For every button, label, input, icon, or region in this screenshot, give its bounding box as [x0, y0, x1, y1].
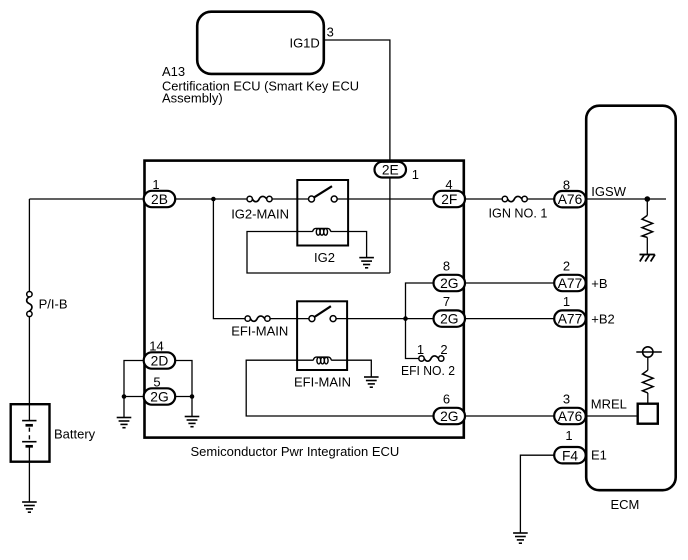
svg-text:A76: A76 — [558, 409, 583, 424]
svg-text:8: 8 — [563, 177, 570, 192]
svg-text:1: 1 — [152, 177, 159, 192]
wire 2G8 to A77 — [465, 282, 554, 284]
wire 2D left to ground — [124, 361, 144, 418]
svg-text:1: 1 — [565, 428, 572, 443]
svg-text:5: 5 — [153, 375, 160, 390]
wire relay EFI-MAIN switch to 2G7 row — [336, 318, 433, 320]
MREL driver terminal circle — [636, 347, 662, 357]
ground IG2 coil — [359, 258, 374, 268]
ground 2D/2G5 left — [117, 418, 132, 428]
resistor IGSW pull-down — [642, 199, 653, 255]
svg-text:2G: 2G — [150, 390, 168, 405]
connector F4 pin 1 — [554, 428, 586, 464]
relay IG2 switch contacts — [309, 186, 338, 202]
relay EFI-MAIN coil — [313, 357, 331, 364]
svg-text:1: 1 — [417, 342, 424, 357]
svg-text:EFI NO. 2: EFI NO. 2 — [401, 363, 455, 378]
svg-text:EFI-MAIN: EFI-MAIN — [231, 324, 288, 339]
fuse EFI-MAIN — [245, 316, 270, 321]
svg-text:14: 14 — [149, 339, 163, 354]
svg-text:2G: 2G — [440, 409, 458, 424]
connector A76 pin 8 — [554, 177, 586, 207]
connector 2G pin 8 — [434, 259, 466, 292]
junction node right ground — [190, 394, 195, 399]
relay IG2 coil — [313, 228, 331, 235]
wire EFI-MAIN coil to ground — [331, 360, 371, 377]
wire EFI-MAIN fuse to relay — [270, 318, 309, 320]
connector A77 pin 2 — [554, 259, 586, 292]
wire J2 down to EFI NO. 2 fuse — [406, 319, 419, 359]
wire IGSW internal — [586, 198, 666, 200]
svg-text:2: 2 — [440, 342, 447, 357]
svg-text:+B: +B — [591, 276, 607, 291]
svg-text:IG2: IG2 — [314, 250, 335, 265]
svg-text:2G: 2G — [440, 276, 458, 291]
svg-text:2: 2 — [563, 259, 570, 274]
svg-text:P/I-B: P/I-B — [39, 297, 68, 312]
wire 2B to IG2-MAIN fuse — [175, 198, 247, 200]
Semiconductor Pwr Integration ECU box — [145, 161, 464, 438]
fuse IG2-MAIN — [247, 196, 272, 201]
svg-text:Assembly): Assembly) — [162, 91, 223, 106]
connector 2F pin 4 — [434, 177, 466, 207]
relay IG2 box — [297, 180, 348, 246]
connector 2D pin 14 — [144, 339, 176, 369]
connector 2E pin 1 — [375, 162, 420, 182]
wire IG2-MAIN fuse to relay — [272, 198, 308, 200]
relay EFI-MAIN box — [297, 301, 347, 370]
wire 2G7 to A77 — [465, 318, 554, 320]
wire 2G8 to J2 — [406, 283, 434, 319]
chassis ground IGSW — [640, 255, 656, 262]
wire IG2 coil loop from 2E — [247, 232, 390, 274]
connector 2G pin 5 — [144, 375, 176, 405]
svg-text:2G: 2G — [440, 312, 458, 327]
svg-text:IGN NO. 1: IGN NO. 1 — [489, 205, 548, 220]
svg-text:2F: 2F — [441, 192, 457, 207]
svg-text:A77: A77 — [558, 276, 583, 291]
junction node IGSW — [645, 196, 651, 202]
relay EFI-MAIN switch contacts — [309, 306, 336, 321]
wire IGN NO. 1 to A76 — [527, 198, 554, 200]
svg-text:ECM: ECM — [611, 497, 640, 512]
connector A76 pin 3 — [554, 392, 586, 425]
battery cell plates — [22, 421, 36, 447]
connector 2B pin 1 — [144, 177, 176, 207]
svg-text:7: 7 — [443, 294, 450, 309]
ECM box — [586, 106, 676, 491]
ECU A13 box — [197, 12, 324, 74]
ground E1 — [513, 533, 528, 543]
wire battery to ground — [28, 446, 30, 502]
junction node J1 — [211, 197, 216, 202]
svg-text:EFI-MAIN: EFI-MAIN — [294, 374, 351, 389]
svg-text:MREL: MREL — [591, 397, 627, 412]
svg-text:Battery: Battery — [54, 427, 96, 442]
svg-text:F4: F4 — [562, 448, 578, 463]
svg-text:Semiconductor Pwr Integration: Semiconductor Pwr Integration ECU — [191, 444, 400, 459]
svg-text:A76: A76 — [558, 192, 583, 207]
fuse IGN NO. 1 — [502, 196, 527, 201]
resistor MREL — [643, 357, 654, 404]
wire 2F to IGN NO. 1 fuse — [465, 198, 502, 200]
connector 2G pin 7 — [434, 294, 466, 327]
wire J1 down to EFI-MAIN fuse — [213, 199, 245, 319]
wire F4 to ground — [520, 455, 554, 533]
MREL driver square — [638, 404, 658, 424]
wire EFI-MAIN coil to 2G6 — [246, 360, 433, 416]
wire IG2 coil to ground — [331, 232, 367, 258]
svg-text:3: 3 — [327, 24, 334, 39]
wire 2D right to ground — [175, 361, 192, 417]
svg-text:2B: 2B — [151, 192, 168, 207]
wire relay IG2 to 2F — [337, 198, 433, 200]
junction node left ground — [122, 394, 127, 399]
svg-text:2D: 2D — [151, 354, 169, 369]
svg-text:3: 3 — [563, 392, 570, 407]
svg-text:8: 8 — [443, 259, 450, 274]
svg-text:IG2-MAIN: IG2-MAIN — [231, 206, 289, 221]
svg-text:IGSW: IGSW — [591, 184, 626, 199]
connector A77 pin 1 — [554, 294, 586, 327]
svg-text:+B2: +B2 — [591, 311, 615, 326]
svg-text:A13: A13 — [162, 64, 185, 79]
svg-text:1: 1 — [412, 167, 419, 182]
wire IG1D to 2E — [325, 40, 390, 162]
wire MREL internal — [586, 415, 638, 417]
ground EFI-MAIN coil — [364, 377, 379, 387]
wire 2G5 right — [175, 396, 192, 398]
fuse EFI NO. 2 — [419, 356, 444, 361]
wire fuse to battery — [28, 317, 30, 421]
wire 2G6 to A76 — [465, 415, 554, 417]
svg-text:IG1D: IG1D — [289, 35, 319, 50]
battery box — [11, 404, 50, 462]
svg-text:6: 6 — [443, 392, 450, 407]
svg-text:A77: A77 — [558, 312, 583, 327]
fuse P/I-B — [27, 292, 32, 317]
wire 2G5 left — [124, 396, 144, 398]
svg-text:4: 4 — [445, 177, 452, 192]
connector 2G pin 6 — [434, 392, 466, 425]
ground battery — [22, 502, 37, 512]
svg-text:E1: E1 — [591, 447, 607, 462]
junction node J2 — [403, 316, 408, 321]
wire battery to 2B — [29, 198, 143, 200]
svg-text:2E: 2E — [382, 163, 399, 178]
ground 2D/2G5 right — [185, 417, 200, 427]
svg-text:1: 1 — [563, 294, 570, 309]
